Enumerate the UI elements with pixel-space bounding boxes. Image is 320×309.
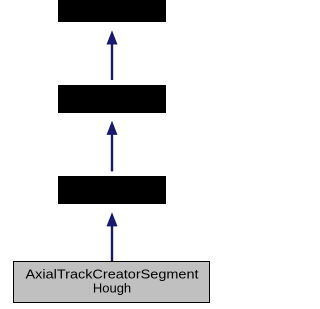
base class box 1 (clipped at top): [58, 0, 166, 22]
base class box 2: [58, 85, 166, 113]
derived class node AxialTrackCreatorSegmentHough: [14, 262, 210, 303]
inheritance arrow 1: [107, 30, 118, 80]
base class box 3: [58, 176, 166, 204]
svg-text:AxialTrackCreatorSegment: AxialTrackCreatorSegment: [26, 267, 199, 282]
inheritance diagram for AxialTrackCreatorSegmentHough: [0, 0, 224, 309]
inheritance arrow 3: [107, 212, 118, 261]
svg-text:Hough: Hough: [93, 281, 131, 296]
inheritance arrow 2: [107, 121, 118, 172]
